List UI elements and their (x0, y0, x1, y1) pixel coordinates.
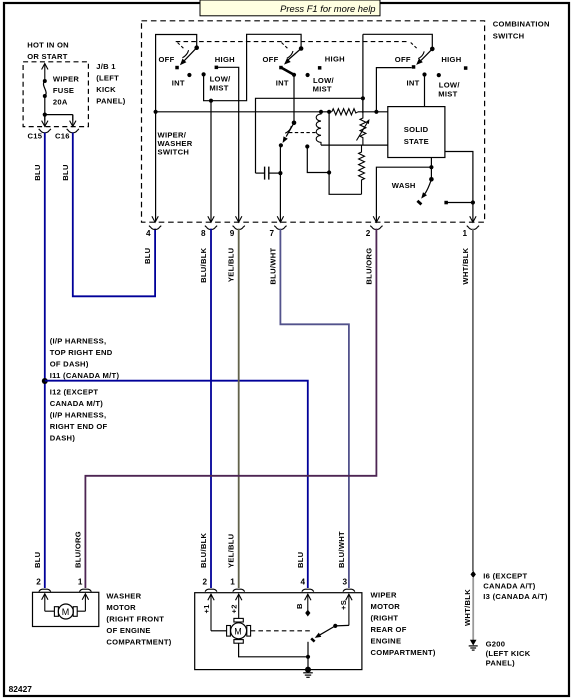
svg-text:OFF: OFF (395, 55, 411, 64)
terminal 9 arrow and cup (233, 216, 245, 229)
junction dot fuse output (43, 113, 47, 117)
svg-text:BLU: BLU (143, 247, 152, 264)
svg-text:2: 2 (36, 578, 41, 587)
wire S2 lower second contact to node (307, 149, 329, 173)
switch S1 frame (156, 35, 197, 112)
node park common (306, 655, 310, 659)
switch S2 blade to INT (281, 68, 294, 75)
wiper B diamond end (305, 610, 310, 617)
svg-text:INT: INT (276, 79, 289, 88)
svg-text:REAR OF: REAR OF (371, 625, 407, 634)
svg-text:1: 1 (230, 578, 235, 587)
svg-text:WHT/BLK: WHT/BLK (463, 589, 472, 626)
wiper motor lead +1 (211, 630, 227, 632)
svg-text:BLU: BLU (61, 164, 70, 181)
node lower contact join (327, 170, 331, 174)
washer motor leads (45, 610, 86, 612)
J/B 1 label (96, 62, 126, 106)
wire BLU/ORG terminal 2 (85, 229, 376, 588)
svg-text:M: M (234, 626, 242, 636)
terminal 1 arrow and cup (467, 216, 479, 229)
node terminal 8 branch (209, 99, 213, 103)
svg-text:HOT IN ON: HOT IN ON (27, 41, 69, 50)
variable resistor R2 vertical with arrow (357, 98, 370, 145)
wire S3 frame feed vertical (362, 34, 364, 113)
wiper motor terminal 2 arrow +1 (208, 594, 214, 631)
svg-text:1: 1 (463, 229, 468, 238)
svg-text:MOTOR: MOTOR (106, 603, 136, 612)
washer motor box (33, 592, 99, 626)
svg-text:LOW/: LOW/ (439, 81, 461, 90)
switch S2 HIGH contact (318, 66, 322, 70)
I12 label (50, 387, 108, 442)
wiper/washer switch label (158, 130, 193, 156)
switch S2 wedge dash (282, 43, 288, 49)
park switch to ground wire (307, 642, 309, 670)
park switch dashed link (251, 630, 313, 632)
svg-text:MIST: MIST (313, 84, 332, 93)
svg-text:INT: INT (407, 79, 420, 88)
svg-text:MIST: MIST (438, 90, 457, 99)
switch S2 OFF contact (279, 66, 283, 70)
node capacitor bus to rheostat (361, 96, 365, 100)
svg-text:I12 (EXCEPT: I12 (EXCEPT (50, 387, 99, 396)
wire WHT/BLK lower to ground (472, 578, 474, 640)
svg-text:WASH: WASH (392, 181, 416, 190)
switch S1 wedge dash (178, 43, 184, 49)
switch S3 LOW/MIST contact (437, 73, 441, 77)
svg-text:SWITCH: SWITCH (158, 147, 190, 156)
svg-text:2: 2 (203, 578, 208, 587)
switch S3 wedge dash (411, 43, 417, 49)
switch S1 OFF contact (175, 66, 179, 70)
terminal 4 arrow and cup (149, 216, 161, 229)
wire S1 LOW/MIST to S2 frame (204, 34, 302, 100)
switch S3 arm (416, 49, 432, 65)
svg-text:82427: 82427 (9, 684, 33, 694)
svg-text:HIGH: HIGH (325, 54, 345, 63)
C15 C16 labels (28, 132, 70, 141)
svg-text:PANEL): PANEL) (486, 659, 516, 668)
svg-text:BLU/BLK: BLU/BLK (199, 532, 208, 568)
svg-text:(I/P HARNESS,: (I/P HARNESS, (50, 410, 107, 419)
svg-text:C16: C16 (55, 132, 70, 141)
svg-text:+2: +2 (230, 604, 239, 613)
node capacitor to terminal 7 wire (278, 171, 282, 175)
washer motor terminal 1 cup (80, 589, 92, 592)
wash contact stub (446, 202, 473, 204)
wire BLU/BLK terminal 8 (210, 229, 212, 588)
svg-text:OFF: OFF (263, 55, 279, 64)
wire BLU from C15 down to washer motor (44, 133, 46, 588)
washer motor M1 (54, 604, 77, 619)
svg-text:I6 (EXCEPT: I6 (EXCEPT (483, 571, 527, 580)
svg-text:BLU/ORG: BLU/ORG (73, 531, 82, 568)
I/P harness I11 label (50, 337, 120, 381)
wash switch contact bar (417, 201, 421, 205)
wire BLU branch to wiper motor B (45, 381, 308, 588)
switch S2 pivot (299, 46, 304, 51)
svg-text:WASHER: WASHER (106, 592, 141, 601)
svg-text:MIST: MIST (209, 84, 228, 93)
splice I6/I3 diamond (471, 571, 476, 578)
wiper motor terminal cups (205, 589, 355, 592)
washer motor label (106, 592, 171, 647)
svg-text:BLU/BLK: BLU/BLK (199, 247, 208, 283)
switch S2 spring arc (287, 51, 293, 58)
washer motor terminal 2 cup (39, 589, 51, 592)
svg-text:TOP RIGHT END: TOP RIGHT END (50, 348, 113, 357)
svg-text:20A: 20A (53, 98, 68, 107)
svg-text:LOW/: LOW/ (210, 75, 232, 84)
svg-text:7: 7 (270, 229, 275, 238)
wire to terminal 8 (210, 101, 212, 222)
svg-text:1: 1 (78, 578, 83, 587)
svg-text:C15: C15 (28, 132, 43, 141)
wire S3 INT to solid state (424, 75, 426, 107)
svg-text:8: 8 (201, 229, 206, 238)
wire BLU/WHT terminal 7 (280, 229, 349, 588)
wire timing branch vertical (329, 112, 361, 195)
svg-text:(I/P HARNESS,: (I/P HARNESS, (50, 337, 107, 346)
svg-text:I3 (CANADA A/T): I3 (CANADA A/T) (483, 592, 548, 601)
wire solid state to terminal 1 (445, 152, 473, 222)
junction block J/B 1 dashed box (23, 62, 88, 127)
help banner (200, 0, 380, 16)
svg-text:INT: INT (172, 79, 185, 88)
svg-text:MOTOR: MOTOR (371, 602, 401, 611)
terminal 8 arrow and cup (205, 216, 217, 229)
svg-text:FUSE: FUSE (53, 86, 74, 95)
svg-text:SOLID: SOLID (404, 125, 429, 134)
wire S1 HIGH to terminal 9 (218, 67, 239, 221)
switch S3 LOW/MIST label (438, 81, 460, 99)
I6/I3 label (483, 571, 548, 600)
park switch contact +S node (333, 624, 337, 628)
switch S3 pivot (430, 47, 435, 52)
terminal 7 arrow and cup (274, 216, 286, 229)
node bus at S1 frame and terminal 4 (154, 110, 158, 114)
combination switch label (493, 20, 550, 41)
wiper motor terminal 1 arrow +2 (236, 594, 242, 618)
connector C15 arrow and cup (39, 115, 51, 133)
wire BLU from C16 down and right to terminal 4 (73, 133, 155, 297)
wire S2 INT stem down to lower pivot (293, 75, 295, 123)
svg-text:3: 3 (343, 578, 348, 587)
switch S2 lower contact b (305, 144, 309, 148)
svg-text:OF ENGINE: OF ENGINE (106, 626, 150, 635)
svg-text:RIGHT END OF: RIGHT END OF (50, 422, 108, 431)
svg-text:BLU/ORG: BLU/ORG (364, 248, 373, 285)
coil L1 (316, 112, 321, 145)
dashed link arm to rheostat (289, 132, 317, 134)
main bus wire B+ (156, 111, 388, 113)
splice node I11/I12 on BLU wire (42, 378, 48, 384)
wash switch pivot (429, 177, 434, 182)
wire contact a down to terminal 7 (279, 145, 281, 221)
connector C16 arrow and cup (67, 115, 79, 133)
wiper motor ground G (303, 667, 313, 678)
svg-text:+1: +1 (202, 604, 211, 614)
svg-text:Press F1 for more help: Press F1 for more help (280, 3, 375, 14)
svg-text:DASH): DASH) (50, 433, 76, 442)
switch S3 frame (363, 34, 432, 47)
svg-text:BLU/WHT: BLU/WHT (337, 531, 346, 568)
svg-text:WIPER: WIPER (53, 75, 80, 84)
switch S2 lower contact a (279, 143, 283, 147)
switch S2 lower arm (283, 123, 294, 143)
svg-text:2: 2 (366, 229, 371, 238)
wire YEL/BLU terminal 9 (238, 229, 240, 588)
node timing branch top (327, 110, 331, 114)
switch S2 LOW/MIST contact (306, 73, 310, 77)
svg-text:COMBINATION: COMBINATION (493, 20, 550, 29)
svg-text:+S: +S (339, 600, 348, 610)
switch S1 pivot (194, 45, 199, 50)
horizontal resistor R1 on bus (332, 109, 358, 115)
svg-text:HIGH: HIGH (215, 55, 235, 64)
svg-text:SWITCH: SWITCH (493, 32, 525, 41)
switch S3 INT contact (422, 72, 426, 76)
resistor R3 vertical (359, 145, 365, 194)
wire fuse to C15/C16 junction (45, 96, 73, 121)
svg-text:G200: G200 (486, 640, 506, 649)
combination switch dashed box (142, 21, 485, 222)
svg-text:YEL/BLU: YEL/BLU (227, 533, 236, 568)
switch S3 OFF contact (412, 65, 416, 69)
wiper motor terminal 3 arrow +S (346, 594, 352, 625)
svg-text:4: 4 (146, 229, 151, 238)
wire WHT/BLK terminal 1 upper (472, 229, 474, 571)
svg-text:YEL/BLU: YEL/BLU (227, 247, 236, 282)
svg-text:HIGH: HIGH (441, 55, 461, 64)
svg-text:WHT/BLK: WHT/BLK (461, 247, 470, 284)
wire to terminal 4 (155, 112, 157, 222)
switch S2 arm (284, 49, 301, 65)
svg-text:PANEL): PANEL) (96, 97, 126, 106)
svg-text:OFF: OFF (159, 55, 175, 64)
wire S3 OFF contact to bus (376, 68, 411, 112)
park switch contact bar (311, 638, 314, 641)
svg-text:(LEFT: (LEFT (96, 74, 119, 83)
node wash contact branch (471, 200, 475, 204)
hot in on label (27, 41, 69, 62)
wire solid state bottom to wash switch (430, 158, 432, 180)
node coil top (319, 110, 323, 114)
switch S3 HIGH contact (464, 66, 468, 70)
park switch arm (315, 626, 336, 638)
fuse feed arrow up (42, 64, 48, 81)
svg-text:CANADA M/T): CANADA M/T) (50, 399, 104, 408)
wiper motor common lead (239, 643, 308, 657)
solid state unit U1 (388, 107, 445, 158)
wash switch arm (421, 179, 431, 198)
switch S2 INT contact (292, 73, 296, 77)
wiper motor M2 (227, 618, 251, 643)
washer motor terminal 1 arrow (82, 594, 88, 611)
svg-text:BLU/WHT: BLU/WHT (268, 248, 277, 285)
switch S2 LOW/MIST label (313, 76, 335, 93)
svg-text:M: M (62, 607, 69, 617)
washer motor terminal 2 arrow (42, 594, 48, 611)
switch S2 lower spring arc (285, 126, 291, 133)
svg-text:B: B (295, 603, 304, 609)
svg-text:4: 4 (301, 578, 306, 587)
svg-text:CANADA A/T): CANADA A/T) (483, 582, 535, 591)
svg-text:(LEFT KICK: (LEFT KICK (486, 649, 531, 658)
svg-text:BLU: BLU (296, 551, 305, 568)
svg-text:KICK: KICK (96, 85, 116, 94)
ground G200 (469, 640, 478, 650)
capacitor top wire (256, 98, 363, 173)
wire terminal 2 riser (376, 167, 431, 221)
G200 label (486, 640, 531, 668)
switch S1 INT contact (187, 73, 191, 77)
wiper fuse 20A (43, 75, 80, 107)
switch S3 spring arc (418, 51, 424, 58)
svg-text:OR START: OR START (27, 52, 68, 61)
svg-text:(RIGHT: (RIGHT (371, 614, 399, 623)
svg-text:COMPARTMENT): COMPARTMENT) (106, 638, 171, 647)
svg-text:COMPARTMENT): COMPARTMENT) (371, 648, 436, 657)
switch S1 LOW/MIST label (209, 75, 231, 93)
node S3 OFF feed on bus (374, 110, 378, 114)
svg-text:BLU: BLU (33, 551, 42, 568)
svg-text:WIPER: WIPER (371, 591, 398, 600)
svg-text:STATE: STATE (404, 137, 429, 146)
svg-text:9: 9 (230, 229, 235, 238)
switch S1 spring arc (182, 50, 188, 58)
wire +S to park contact (335, 624, 349, 627)
svg-text:J/B 1: J/B 1 (96, 62, 116, 71)
mechanical linkage dashed line (176, 41, 407, 43)
svg-text:OF DASH): OF DASH) (50, 360, 89, 369)
wash stub contact end (444, 201, 448, 205)
svg-text:I11 (CANADA M/T): I11 (CANADA M/T) (50, 371, 120, 380)
svg-text:ENGINE: ENGINE (371, 637, 402, 646)
capacitor C1 (256, 167, 281, 180)
switch S1 LOW/MIST contact (202, 72, 206, 76)
node wash common upper (429, 165, 433, 169)
switch S2 lower pivot (292, 121, 297, 126)
switch S1 HIGH contact (215, 66, 219, 70)
wire coil bottom to solid state (321, 144, 388, 146)
svg-text:BLU: BLU (33, 164, 42, 181)
terminal 2 arrow and cup (370, 216, 382, 229)
svg-text:(RIGHT FRONT: (RIGHT FRONT (106, 615, 164, 624)
wiper motor terminal 4 arrow B (305, 594, 311, 610)
wiper motor box (195, 593, 362, 670)
switch S1 arm (180, 48, 197, 65)
wiper motor label (371, 591, 436, 658)
